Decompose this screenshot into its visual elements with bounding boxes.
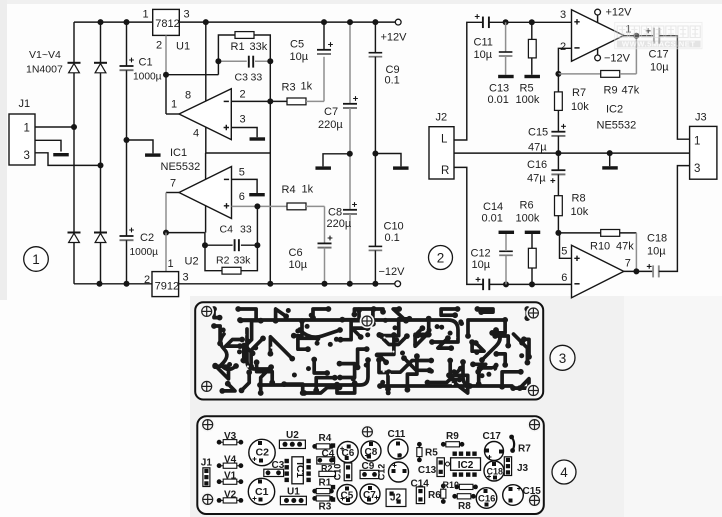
- svg-text:3: 3: [183, 272, 189, 284]
- svg-text:2: 2: [156, 40, 162, 52]
- capacitor C5 10u: [317, 42, 333, 54]
- resistor R7 10k: [555, 92, 563, 111]
- ground at C7/C8 node: [315, 166, 331, 169]
- wire R9 to output drop: [620, 73, 637, 75]
- wire R3 to C5: [306, 100, 324, 102]
- svg-text:R6: R6: [428, 490, 441, 501]
- wire output node to feedback: [166, 74, 218, 76]
- wire inverting node column: [269, 61, 271, 283]
- node IC2b noninverting: [555, 230, 561, 236]
- wire C4 row: [205, 244, 257, 246]
- pin marker plus: [574, 19, 579, 24]
- resistor R9 47k: [601, 71, 620, 78]
- svg-text:C12: C12: [377, 464, 387, 481]
- terminal -12V supply: [595, 55, 601, 61]
- svg-text:C15: C15: [523, 486, 542, 497]
- capacitor C6 footprint: [337, 442, 358, 463]
- svg-text:3: 3: [559, 351, 567, 366]
- pin marker minus: [574, 283, 579, 285]
- wire J1 pin1 to rectifier: [35, 126, 74, 128]
- node IC1b out / U2 pin1: [163, 230, 169, 236]
- svg-text:7912: 7912: [155, 281, 179, 293]
- wire diode column 2 lower: [100, 243, 102, 284]
- wire -rail right of U2 to -12V terminal: [179, 283, 395, 285]
- node pin6: [254, 203, 260, 209]
- svg-text:1: 1: [24, 123, 30, 135]
- figure number 1: [24, 247, 49, 272]
- mounting hole bottom-right of board 4: [527, 493, 542, 508]
- svg-text:47k: 47k: [622, 85, 640, 97]
- wire U1 pin2 down: [165, 35, 167, 74]
- node on -rail: [267, 281, 273, 287]
- connector J3 footprint: [504, 457, 511, 476]
- svg-text:IC1: IC1: [294, 462, 305, 478]
- regulator U2 7912: [152, 272, 179, 297]
- svg-text:C18: C18: [487, 467, 504, 477]
- node C7 on +rail: [347, 19, 353, 25]
- op-amp IC1 second half (pins 5,6,7): [179, 167, 232, 219]
- pin marker minus: [574, 47, 579, 49]
- diode V1 footprint: [217, 479, 244, 484]
- svg-text:R3: R3: [282, 82, 296, 94]
- wire R7 to C15: [557, 110, 559, 131]
- mounting hole top-left of board 3: [199, 304, 214, 319]
- wire C17 to J3 pin1: [659, 36, 689, 140]
- svg-text:2: 2: [240, 89, 246, 101]
- svg-text:+12V: +12V: [606, 7, 633, 19]
- resistor R8 10k: [555, 196, 563, 216]
- wire C10 bottom lead: [374, 250, 376, 283]
- svg-text:7812: 7812: [155, 18, 179, 30]
- copper pads of board 3: [211, 306, 532, 396]
- svg-text:WWW.5MACS.NET: WWW.5MACS.NET: [622, 39, 696, 48]
- svg-text:1: 1: [694, 136, 700, 148]
- wire output node down to IC1a: [165, 75, 167, 114]
- wire -12V stub: [597, 48, 599, 55]
- capacitor C16 47u: [550, 170, 565, 183]
- svg-text:U1: U1: [287, 487, 300, 498]
- resistor R5 100k: [528, 39, 536, 58]
- capacitor C17 footprint: [485, 442, 504, 461]
- wire +rail right of U1 to +12V terminal: [179, 21, 395, 23]
- svg-text:C2: C2: [256, 447, 270, 459]
- diode V2: [94, 63, 107, 73]
- watermark glyph 2: [629, 26, 639, 38]
- ground above R6: [525, 231, 541, 234]
- capacitor C6 10u: [318, 236, 333, 248]
- svg-text:C13: C13: [489, 83, 509, 95]
- wire C5 bottom lead: [323, 57, 325, 102]
- svg-text:C13: C13: [418, 465, 437, 476]
- watermark glyph 3: [642, 26, 652, 38]
- node feedback2 left: [202, 242, 208, 248]
- node feedback left: [215, 58, 221, 64]
- node J1 pin1: [71, 124, 77, 130]
- wire C3 row: [218, 60, 270, 62]
- wire R10 to output drop: [620, 232, 637, 234]
- wire R8 to node: [557, 216, 559, 233]
- svg-text:33: 33: [240, 224, 252, 236]
- wire IC1 pin2 to node: [231, 100, 270, 102]
- svg-text:R9: R9: [446, 431, 459, 442]
- svg-text:R5: R5: [520, 83, 534, 95]
- svg-text:6: 6: [561, 272, 567, 284]
- svg-text:33: 33: [251, 72, 263, 84]
- svg-text:V1~V4: V1~V4: [29, 49, 61, 61]
- wire R5 top lead: [531, 22, 533, 39]
- svg-text:10k: 10k: [571, 206, 589, 218]
- svg-text:C10: C10: [333, 464, 343, 481]
- svg-text:10µ: 10µ: [472, 259, 491, 271]
- wire diode column 1 upper: [73, 22, 75, 63]
- wire C11 to IC2 pin3: [489, 21, 572, 23]
- svg-text:C18: C18: [647, 233, 667, 245]
- capacitor C17 10u: [646, 28, 660, 44]
- wire IC1 pin6 to R4: [232, 205, 288, 207]
- svg-text:C12: C12: [471, 248, 491, 260]
- wire feedback left drop: [204, 233, 206, 246]
- wire C12 to IC2 pin6: [489, 283, 571, 285]
- wire node to R10: [558, 232, 600, 234]
- diode V4: [94, 233, 107, 243]
- capacitor C14 0.01: [499, 251, 513, 255]
- mounting hole top-left of board 4: [200, 417, 215, 432]
- capacitor C18 footprint: [484, 461, 504, 481]
- ground below C13: [498, 75, 514, 78]
- wire diode column 2 middle: [100, 73, 102, 233]
- jumper U2 footprint: [279, 440, 305, 448]
- node rail/C1: [124, 19, 130, 25]
- wire mid ground rail J2 to J3: [454, 152, 690, 154]
- svg-text:0.1: 0.1: [385, 232, 400, 244]
- svg-text:4: 4: [193, 128, 199, 140]
- capacitor C9 footprint: [360, 470, 379, 478]
- pad holes of board 3: [243, 315, 494, 385]
- svg-text:C17: C17: [483, 431, 502, 442]
- svg-text:C3: C3: [235, 72, 249, 84]
- pin marker minus: [224, 100, 229, 102]
- svg-text:1000µ: 1000µ: [133, 72, 162, 83]
- capacitor C5 footprint: [337, 485, 357, 505]
- node C13 tap: [503, 19, 509, 25]
- wire C9 top lead: [374, 22, 376, 53]
- wire IC1b output down: [165, 193, 167, 233]
- wire C13 top lead: [505, 22, 507, 52]
- node C6 on -rail: [322, 281, 328, 287]
- pin marker plus: [224, 125, 229, 130]
- wire +rail left of U1: [74, 21, 153, 23]
- svg-text:10k: 10k: [571, 101, 589, 113]
- figure number 4: [552, 460, 576, 484]
- wire IC2a output: [624, 35, 654, 37]
- terminal +12V output: [395, 19, 401, 25]
- resistor R2 footprint: [319, 471, 336, 476]
- wire feedback drop: [635, 36, 637, 74]
- capacitor C11 10u: [475, 14, 489, 28]
- svg-text:1k: 1k: [301, 81, 313, 93]
- wire pin4 bus: [206, 152, 271, 154]
- node pin8 on +rail: [203, 19, 209, 25]
- ground at J1 pin2: [53, 153, 69, 156]
- svg-text:C2: C2: [140, 232, 154, 244]
- ground above C14: [499, 231, 515, 234]
- svg-text:C10: C10: [384, 221, 404, 233]
- wire C1 top: [126, 22, 128, 66]
- ground on mid rail: [602, 166, 618, 169]
- wire C8 bottom lead: [349, 214, 351, 284]
- svg-text:1: 1: [168, 258, 174, 270]
- resistor R6 100k: [528, 248, 536, 268]
- svg-text:6: 6: [239, 191, 245, 203]
- wire pin2 node to R3: [270, 100, 287, 102]
- node IC2a inverting: [555, 71, 561, 77]
- ground at C9/C10 node: [393, 166, 409, 169]
- wire feedback left drop: [217, 61, 219, 74]
- via pads column: [331, 443, 335, 447]
- regulator U1 7812: [153, 9, 180, 35]
- terminal -12V output: [395, 281, 401, 287]
- wire IC1 pin3 to ground: [231, 128, 257, 138]
- watermark box: [615, 22, 702, 48]
- ground below R5: [524, 75, 540, 78]
- wire J2 L input: [454, 22, 483, 140]
- svg-text:C11: C11: [474, 37, 493, 49]
- capacitor C4 33: [233, 239, 241, 251]
- mounting hole bottom-left of board 3: [199, 379, 214, 394]
- wire R2 right: [241, 245, 258, 271]
- capacitor C15 footprint: [503, 485, 524, 506]
- capacitor C7 footprint: [360, 484, 380, 504]
- svg-text:3: 3: [184, 9, 190, 21]
- wire out node to feedback: [166, 232, 205, 234]
- watermark glyph 4: [654, 26, 664, 38]
- resistor R3 footprint: [312, 496, 333, 501]
- svg-text:C7: C7: [324, 106, 338, 118]
- wire C16 to R8: [557, 174, 559, 195]
- wire IC1 pin8 to +rail: [205, 22, 207, 101]
- PCB component layout board: [197, 416, 544, 514]
- capacitor C8 220u: [343, 202, 357, 214]
- svg-text:C17: C17: [649, 49, 669, 61]
- svg-text:C6: C6: [342, 448, 355, 459]
- node mid ground right: [372, 151, 378, 157]
- capacitor C9 0.1: [369, 53, 383, 57]
- watermark glyph 6: [678, 26, 688, 38]
- resistor R5 footprint: [417, 442, 422, 462]
- node R5 tap: [529, 19, 535, 25]
- node -rail/C2: [124, 281, 130, 287]
- svg-text:R8: R8: [458, 501, 471, 512]
- svg-text:4: 4: [560, 465, 568, 480]
- wire C7 to C8: [349, 108, 351, 210]
- capacitor C12 10u: [476, 277, 490, 290]
- wire J2 R input: [454, 167, 483, 284]
- capacitor C15 47u: [551, 124, 566, 136]
- resistor R9 footprint: [441, 442, 465, 447]
- resistor R8 footprint: [452, 494, 475, 499]
- capacitor C2 1000u: [120, 228, 134, 241]
- svg-text:R9: R9: [604, 85, 618, 97]
- pin marker plus: [574, 256, 579, 261]
- node feedback2 right: [254, 242, 260, 248]
- svg-text:C15: C15: [528, 127, 548, 139]
- op-amp IC2 first half (pins 3,2,1): [572, 10, 624, 62]
- resistor R1 33k: [235, 32, 254, 39]
- wire C9 to mid node: [374, 57, 376, 154]
- svg-text:2: 2: [144, 274, 150, 286]
- node IC1 pin2: [267, 98, 273, 104]
- pin marker plus: [224, 203, 229, 208]
- wire R6 bottom lead: [531, 268, 533, 284]
- svg-text:1: 1: [171, 99, 177, 111]
- mounting hole bottom-right of board 3: [526, 383, 541, 398]
- wire C6 top lead: [324, 206, 326, 243]
- svg-text:C4: C4: [220, 224, 234, 236]
- wire power stub to IC1b: [205, 153, 207, 180]
- diode V3 footprint: [217, 440, 244, 445]
- node J1 pin3: [98, 162, 104, 168]
- capacitor C1 1000u: [120, 58, 134, 71]
- svg-text:R7: R7: [572, 87, 586, 99]
- svg-text:+12V: +12V: [381, 32, 408, 44]
- wire J1 pin3 to rectifier: [35, 153, 101, 166]
- node -rail/diode1: [97, 281, 103, 287]
- wire ground stub: [609, 153, 611, 166]
- ground at C1 node: [145, 153, 161, 156]
- svg-text:1: 1: [143, 9, 149, 21]
- svg-text:C1: C1: [255, 486, 269, 498]
- svg-text:R10: R10: [590, 241, 610, 253]
- capacitor C8 footprint: [361, 441, 381, 461]
- node mid ground left: [347, 151, 353, 157]
- wire IC2b output: [624, 270, 653, 272]
- wire R7 top lead: [557, 74, 559, 92]
- svg-text:47µ: 47µ: [528, 142, 547, 154]
- svg-text:C8: C8: [328, 207, 342, 219]
- wire C5 to +rail: [323, 22, 325, 50]
- svg-text:NE5532: NE5532: [161, 161, 201, 173]
- node C14 tap: [503, 281, 509, 287]
- svg-text:3: 3: [240, 114, 246, 126]
- node C8 on -rail: [347, 281, 353, 287]
- svg-text:C7: C7: [363, 490, 376, 501]
- svg-text:C1: C1: [139, 57, 153, 69]
- wire mid node to ground: [323, 154, 350, 167]
- resistor R4 1k: [287, 203, 306, 210]
- svg-text:0.01: 0.01: [488, 94, 509, 106]
- svg-text:C11: C11: [388, 429, 406, 440]
- wire -rail left of U2: [74, 283, 152, 285]
- svg-text:3: 3: [560, 9, 566, 21]
- svg-text:−12V: −12V: [379, 266, 406, 278]
- wire R1 left: [218, 35, 235, 61]
- svg-text:C14: C14: [483, 201, 503, 213]
- copper traces of board 3: [214, 309, 529, 393]
- connector J1 footprint: [203, 468, 210, 487]
- svg-text:1000µ: 1000µ: [130, 247, 159, 258]
- svg-text:100k: 100k: [516, 94, 540, 106]
- wire IC2 pin2 to node: [558, 48, 571, 74]
- IC2 footprint: [451, 458, 481, 471]
- diode V1: [68, 63, 81, 73]
- capacitor C3 33: [247, 56, 255, 68]
- wire R2 left: [205, 245, 222, 271]
- resistor R3 1k: [287, 98, 306, 105]
- svg-text:U1: U1: [176, 41, 190, 53]
- wire C1-node to ground: [127, 140, 154, 153]
- svg-text:0.01: 0.01: [482, 213, 503, 225]
- capacitor C3 footprint: [264, 469, 284, 476]
- wire C18 to J3 pin3: [659, 166, 690, 272]
- node ground tap on rail: [607, 150, 613, 156]
- wire R5 bottom lead: [531, 58, 533, 75]
- mounting hole top-middle of board 3: [360, 314, 375, 329]
- wire U2 pin1 up: [165, 233, 167, 272]
- node rail/diode2: [98, 19, 104, 25]
- svg-text:J3: J3: [517, 463, 529, 474]
- svg-text:IC2: IC2: [458, 460, 474, 471]
- mounting hole top-middle of board 4: [360, 425, 375, 440]
- svg-text:10µ: 10µ: [647, 246, 666, 258]
- svg-text:1N4007: 1N4007: [26, 64, 63, 76]
- svg-text:R1: R1: [319, 478, 332, 489]
- svg-text:7: 7: [625, 258, 631, 270]
- watermark glyph 7: [690, 26, 700, 38]
- svg-text:2: 2: [437, 251, 445, 266]
- svg-text:R3: R3: [319, 501, 332, 512]
- capacitor C13 footprint: [437, 458, 444, 477]
- capacitor C1 footprint: [248, 478, 274, 504]
- node feedback right: [267, 58, 273, 64]
- svg-text:5: 5: [561, 246, 567, 258]
- capacitor C13 0.01: [499, 52, 513, 56]
- wire IC1b output: [166, 192, 179, 194]
- node IC2a output: [633, 33, 639, 39]
- node C5 on +rail: [321, 19, 327, 25]
- wire C14 top lead: [505, 234, 507, 251]
- svg-text:C8: C8: [365, 447, 378, 458]
- capacitor C16 footprint: [476, 488, 497, 509]
- svg-text:33k: 33k: [250, 41, 268, 53]
- wire +12V stub: [597, 15, 599, 23]
- svg-text:R1: R1: [231, 41, 245, 53]
- svg-text:1: 1: [32, 252, 40, 267]
- svg-text:C5: C5: [290, 39, 304, 51]
- resistor R2 33k: [222, 267, 241, 274]
- connector J1: [9, 114, 35, 165]
- watermark glyph 1: [617, 26, 627, 38]
- connector J3: [690, 126, 717, 179]
- PCB copper layout board: [195, 302, 543, 399]
- capacitor C10 footprint body: [344, 463, 352, 481]
- figure number 3: [550, 345, 575, 370]
- resistor R10 footprint: [454, 484, 478, 489]
- svg-text:10µ: 10µ: [289, 259, 308, 271]
- mounting hole bottom-left of board 4: [200, 492, 215, 507]
- svg-text:C16: C16: [478, 494, 495, 505]
- wire mid node to ground right: [375, 154, 401, 167]
- svg-text:5: 5: [239, 167, 245, 179]
- ground at IC1 pin5: [249, 193, 265, 196]
- svg-text:J1: J1: [201, 458, 213, 469]
- wire C6 to -rail: [324, 248, 326, 284]
- op-amp IC1 first half (pins 8,1,2,3,4): [179, 89, 231, 140]
- node C9 on +rail: [372, 19, 378, 25]
- wire pin6 to feedback: [256, 206, 258, 245]
- svg-text:C16: C16: [527, 159, 547, 171]
- figure number 2: [429, 246, 453, 270]
- node U1 pin2 / IC1a out: [163, 72, 169, 78]
